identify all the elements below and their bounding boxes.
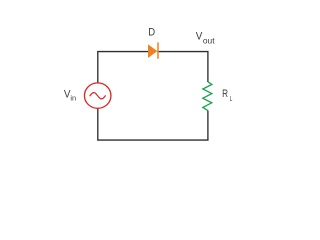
resistor R_L zigzag bbox=[203, 82, 212, 111]
AC source sine wave bbox=[90, 93, 106, 99]
AC source V_in circle bbox=[84, 83, 111, 108]
wire bottom rail and risers (source bottom to bottom-left corner, across, up to resistor bottom) bbox=[98, 108, 208, 140]
svg-text:L: L bbox=[230, 94, 233, 103]
svg-text:out: out bbox=[203, 35, 215, 45]
diode D cathode bar bbox=[157, 42, 159, 58]
diode D triangle (anode) bbox=[148, 45, 157, 58]
wire top-right segment (diode cathode to top-right corner down to resistor top) bbox=[157, 52, 208, 82]
svg-text:in: in bbox=[70, 94, 76, 103]
svg-text:R: R bbox=[222, 88, 228, 100]
svg-text:D: D bbox=[148, 26, 155, 38]
wire top-left segment (top rail from top-left corner to diode anode) bbox=[98, 52, 149, 84]
